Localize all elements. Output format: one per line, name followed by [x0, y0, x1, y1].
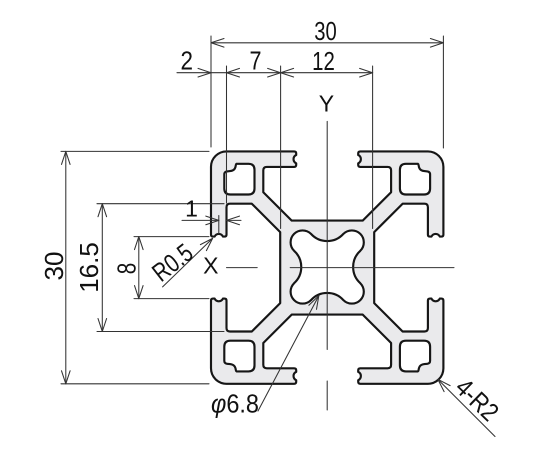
arrow 4-R2: [438, 379, 450, 391]
arrow 7 right: [268, 68, 281, 77]
corner cavity hole top-right: [400, 164, 430, 195]
extension line y=151.4: [61, 150, 209, 152]
svg-text:12: 12: [312, 46, 335, 76]
dimension line 2-7-12 row: [177, 72, 373, 74]
dimension line 16.5: [101, 204, 103, 332]
extension line x=443.4: [442, 36, 444, 148]
dimension texts: [39, 16, 505, 427]
center line Y axis: [326, 121, 328, 349]
extension line y=383.8: [61, 383, 209, 385]
dimension 1 line right: [227, 219, 242, 221]
arrow 1 right: [227, 216, 240, 225]
arrow 30 top left: [211, 39, 224, 48]
arrow 1 left: [206, 216, 219, 225]
extension line x=211: [210, 36, 212, 147]
extension line y=331.5: [97, 331, 224, 333]
svg-text:X: X: [203, 253, 218, 279]
center hole 4-lobe (phi 6.8): [291, 230, 364, 303]
arrow phi6.8: [309, 296, 319, 310]
arrow 8 top: [135, 237, 144, 250]
dimension line 30 left: [65, 151, 67, 383]
svg-text:1: 1: [185, 196, 198, 222]
svg-text:7: 7: [250, 46, 262, 76]
svg-text:16.5: 16.5: [74, 242, 104, 293]
dimension line 8: [138, 237, 140, 299]
arrow R0.5: [200, 238, 212, 250]
svg-text:4-R2: 4-R2: [450, 372, 505, 427]
arrow 30 top right: [430, 39, 443, 48]
arrow 12 left: [281, 68, 294, 77]
extension line y=203.7: [97, 203, 224, 205]
thin lines: [61, 36, 495, 437]
arrow 30 left top: [62, 151, 71, 164]
center line X axis: [227, 267, 258, 269]
corner cavity hole bottom-left: [224, 341, 254, 372]
svg-text:30: 30: [39, 252, 69, 281]
svg-text:φ6.8: φ6.8: [211, 389, 259, 419]
svg-text:8: 8: [112, 263, 142, 275]
svg-text:Y: Y: [319, 91, 334, 117]
svg-text:30: 30: [314, 16, 337, 46]
corner cavity hole bottom-right: [400, 341, 430, 372]
extension line y=236.6: [134, 236, 209, 238]
arrow 16.5 top: [98, 204, 107, 217]
arrow shared at 226.5: [227, 68, 240, 77]
arrow 12 right: [360, 68, 373, 77]
arrow 30 left bottom: [62, 371, 71, 384]
dimension line 30 top: [211, 42, 443, 44]
extension line x=280.6: [280, 66, 282, 229]
corner cavity hole top-left: [224, 164, 254, 195]
leader 4-R2: [438, 379, 495, 436]
arrow 8 bottom: [135, 286, 144, 299]
extension line x=372.6: [372, 66, 374, 229]
svg-text:2: 2: [181, 46, 194, 76]
extension line x=226.5: [226, 66, 228, 203]
extrusion profile body outline: [211, 151, 443, 383]
dimension 1 line left: [182, 219, 219, 221]
leader R0.5: [163, 238, 213, 287]
arrow 16.5 bottom: [98, 319, 107, 332]
extension line 1: [218, 216, 220, 234]
arrow 2 left: [198, 68, 211, 77]
svg-text:R0.5: R0.5: [146, 237, 198, 287]
extension line y=298.6: [134, 298, 209, 300]
leader phi6.8: [258, 296, 319, 411]
